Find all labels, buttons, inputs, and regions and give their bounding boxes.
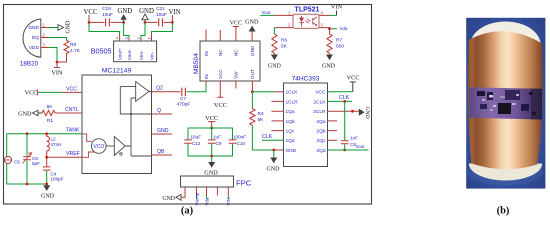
svg-text:10uF: 10uF <box>156 12 167 18</box>
svg-text:GND: GND <box>41 194 55 200</box>
wire pin4 to VIN <box>319 14 330 16</box>
photo copper cylinder <box>468 31 543 169</box>
ground (74HC393 GND pin) <box>273 150 275 158</box>
svg-text:VCO: VCO <box>93 144 104 150</box>
svg-text:C10: C10 <box>237 141 246 146</box>
wire Q2 to C7 <box>152 91 181 93</box>
svg-text:100nF: 100nF <box>233 134 246 139</box>
svg-text:2Qb: 2Qb <box>316 129 325 135</box>
wire pin1 <box>261 14 275 16</box>
svg-text:Vda: Vda <box>204 197 209 205</box>
FPC pin4 stub <box>216 187 218 196</box>
svg-text:1CLR: 1CLR <box>286 99 299 105</box>
wire DQ <box>41 37 49 39</box>
18B20 pin names <box>28 25 39 51</box>
svg-text:Vout: Vout <box>262 10 272 15</box>
wire C7 to MB504 IN <box>187 84 207 92</box>
svg-text:TLP521: TLP521 <box>295 7 320 14</box>
svg-text:GND: GND <box>250 45 255 56</box>
node TANK/C6 <box>26 132 29 135</box>
photo background <box>466 18 545 189</box>
svg-text:VIN: VIN <box>168 9 180 16</box>
svg-text:GND: GND <box>267 167 281 173</box>
svg-text:GND: GND <box>245 19 259 26</box>
svg-text:(b): (b) <box>497 206 510 217</box>
svg-text:VCC: VCC <box>230 20 243 27</box>
svg-text:VREF: VREF <box>66 151 80 157</box>
resistor R1 <box>42 110 55 115</box>
svg-text:VCC: VCC <box>214 102 227 109</box>
svg-text:Vout+: Vout+ <box>117 48 122 60</box>
photo top cap <box>470 21 540 45</box>
svg-text:VCC: VCC <box>218 69 223 79</box>
ground (2CLR, arrow right) <box>359 109 365 116</box>
svg-text:R4: R4 <box>258 111 264 117</box>
svg-text:1uF: 1uF <box>213 134 221 139</box>
svg-text:GND: GND <box>268 64 282 70</box>
svg-text:GND: GND <box>364 107 370 119</box>
svg-text:QB: QB <box>157 149 165 155</box>
sensor electrode C5 <box>6 134 8 157</box>
svg-text:IN: IN <box>204 74 209 79</box>
pin GND (MC12149) <box>152 133 173 135</box>
schematic frame <box>4 5 372 205</box>
svg-text:1Qa: 1Qa <box>286 109 295 115</box>
capacitor C8 <box>344 101 346 140</box>
B0505 pin names <box>117 48 154 60</box>
wire R4 to GND pin <box>252 125 273 150</box>
svg-text:VIN: VIN <box>226 198 231 205</box>
node decoupling bottom <box>210 155 213 158</box>
power VCC (74HC393) <box>328 91 353 93</box>
svg-text:DQ: DQ <box>32 35 39 41</box>
svg-text:L2: L2 <box>51 137 57 142</box>
optocoupler TLP521 <box>293 14 319 28</box>
svg-text:10uF: 10uF <box>102 12 113 18</box>
B0505 pin numbers <box>115 37 152 40</box>
svg-text:VDD: VDD <box>29 45 40 51</box>
svg-text:10uF: 10uF <box>191 134 202 139</box>
connector FPC <box>181 176 234 187</box>
svg-text:Vout: Vout <box>356 144 366 149</box>
photo bottom glow <box>467 158 543 186</box>
pin stubs MB504 top <box>206 30 220 42</box>
svg-text:5K: 5K <box>281 44 288 50</box>
svg-text:Vin+: Vin+ <box>139 50 144 60</box>
FPC pin3 Vda <box>206 187 208 196</box>
resistor R4 <box>250 109 255 126</box>
svg-text:2CLR: 2CLR <box>313 109 326 115</box>
svg-text:Q: Q <box>157 108 161 114</box>
wire GND rail to B0505 pin3 <box>124 22 129 38</box>
svg-text:VCC: VCC <box>25 90 38 97</box>
svg-text:1Qd: 1Qd <box>286 138 295 144</box>
capacitor C6 (variable) <box>26 134 28 156</box>
pin QB (MC12149) <box>152 154 173 156</box>
wire 2Qd Vout <box>328 149 369 151</box>
FPC pin5 VIN <box>227 187 229 196</box>
TLP521 pin numbers <box>288 11 324 28</box>
buffer triangle (small) <box>114 137 125 156</box>
svg-text:(a): (a) <box>181 206 194 217</box>
svg-text:5K: 5K <box>47 104 54 110</box>
wire tank bottom rail <box>7 183 47 185</box>
svg-text:Vtemp: Vtemp <box>194 192 199 205</box>
wire R1 to CNTL <box>55 112 82 114</box>
svg-text:Q2: Q2 <box>156 86 163 92</box>
ground (FPC, arrow left) <box>176 195 181 201</box>
wire decoupling loop <box>188 128 233 156</box>
svg-text:VCC: VCC <box>315 90 326 96</box>
resistor R8 <box>64 41 69 57</box>
FPC pin2 Vtemp <box>196 187 198 196</box>
svg-text:GND: GND <box>322 64 336 70</box>
power VCC (MB504 top) <box>233 27 239 42</box>
pin Q (MC12149) <box>152 113 173 115</box>
wire C19 to GND <box>111 21 124 23</box>
18B20 pin numbers <box>43 23 46 48</box>
capacitor C19 <box>106 18 110 26</box>
svg-text:VCC: VCC <box>84 9 98 16</box>
pin OUT wire <box>251 81 253 92</box>
svg-text:500: 500 <box>336 44 344 50</box>
svg-text:GND: GND <box>286 148 297 154</box>
output triangle (large) <box>136 82 149 102</box>
wire OUT to 74HC393 1CLK <box>252 91 274 93</box>
svg-text:R1: R1 <box>47 118 53 124</box>
svg-text:Vout-: Vout- <box>127 49 132 60</box>
svg-text:OUT: OUT <box>250 69 255 79</box>
svg-text:VCC: VCC <box>66 87 77 93</box>
net CLK wire (2CLK) <box>328 100 353 102</box>
net CLK wire (1Qd) <box>262 139 284 141</box>
capacitor C12 <box>184 140 192 143</box>
wire pin3 <box>319 28 330 29</box>
svg-text:TANK: TANK <box>66 127 80 133</box>
wire VREF <box>47 156 82 158</box>
svg-text:FPC: FPC <box>236 179 252 188</box>
svg-text:MB504: MB504 <box>193 53 200 74</box>
svg-text:C12: C12 <box>192 141 201 146</box>
wire VCC to C19 <box>89 21 105 23</box>
svg-text:VIN: VIN <box>331 4 343 11</box>
svg-text:2Qa: 2Qa <box>316 119 325 125</box>
svg-text:1nF: 1nF <box>350 136 358 141</box>
svg-text:470pF: 470pF <box>177 101 191 107</box>
wire 18B20 pin1 to ground <box>41 27 49 29</box>
svg-text:VIN: VIN <box>51 70 63 77</box>
svg-text:R6: R6 <box>281 38 287 44</box>
svg-text:C21: C21 <box>156 6 165 12</box>
wire R8 bottom to VDD node <box>57 56 67 62</box>
svg-text:MC12149: MC12149 <box>102 68 132 75</box>
wire OUT down to R4 <box>251 92 253 109</box>
capacitor C7 <box>182 88 186 96</box>
photo bottom cap <box>469 164 542 181</box>
svg-text:1CLK: 1CLK <box>286 90 299 96</box>
ground (tank) <box>43 185 50 191</box>
capacitor C10 <box>229 140 237 143</box>
oscillator MC12149 <box>82 75 152 174</box>
svg-text:4.7K: 4.7K <box>70 48 81 54</box>
wire TANK rail <box>7 133 82 135</box>
wire VIN rail to B0505 pin1 <box>152 22 173 34</box>
svg-text:GND: GND <box>66 21 72 34</box>
divider MB504 <box>200 41 260 81</box>
svg-text:C9: C9 <box>216 141 222 146</box>
svg-text:C7: C7 <box>180 96 186 102</box>
svg-text:2Qc: 2Qc <box>317 138 326 144</box>
svg-text:5K: 5K <box>258 117 265 123</box>
wire VCC rail to B0505 pin4 <box>89 22 120 34</box>
ground (R7) <box>329 53 331 54</box>
svg-text:GND: GND <box>162 196 175 202</box>
ground (R6) <box>273 53 275 54</box>
ground (18B20 pin1, arrow right) <box>58 25 64 31</box>
svg-text:2CLK: 2CLK <box>314 99 327 105</box>
svg-text:B0505: B0505 <box>91 46 112 55</box>
svg-text:74HC393: 74HC393 <box>292 75 320 82</box>
svg-text:IN: IN <box>204 51 209 56</box>
svg-text:NC: NC <box>218 49 223 56</box>
svg-text:VCC: VCC <box>347 74 360 81</box>
capacitor C9 <box>208 140 216 143</box>
svg-text:100pF: 100pF <box>51 177 64 182</box>
svg-text:Vda: Vda <box>340 26 348 31</box>
svg-text:GND: GND <box>18 110 32 117</box>
node VDD/VIN junction <box>56 61 59 64</box>
converter B0505 <box>114 41 157 62</box>
svg-text:1Qb: 1Qb <box>286 119 295 125</box>
VCO U-internal <box>92 139 107 154</box>
svg-text:C5: C5 <box>14 160 20 165</box>
capacitor C4 <box>46 157 48 166</box>
TLP521 phototransistor <box>313 17 317 26</box>
svg-text:18B20: 18B20 <box>20 61 39 68</box>
svg-text:VCC: VCC <box>205 115 218 122</box>
ground (decoupling) <box>211 156 213 162</box>
pin SW stub <box>235 81 237 89</box>
wire TANK into VCO <box>82 134 92 141</box>
resistor R6 <box>272 34 277 53</box>
FPC pin1 to ground <box>181 187 185 197</box>
svg-text:CLK: CLK <box>262 134 273 140</box>
internal wires MC12149 <box>106 87 151 156</box>
power VIN (18B20) <box>54 62 60 68</box>
counter 74HC393 <box>284 83 328 167</box>
svg-text:SW: SW <box>234 71 239 79</box>
TLP521 arrows <box>305 19 310 23</box>
svg-text:Vin-: Vin- <box>149 51 154 60</box>
unconnected stubs left <box>272 101 284 130</box>
svg-text:2Qd: 2Qd <box>316 148 325 154</box>
wire GND to C21 <box>145 21 158 23</box>
svg-text:NC: NC <box>234 49 239 56</box>
wire VDD <box>41 47 49 49</box>
sensor 18B20 body <box>23 19 41 57</box>
svg-text:C19: C19 <box>102 6 111 12</box>
74HC393 left pin names <box>286 90 299 154</box>
photo PCB components <box>477 90 536 115</box>
svg-text:5pF: 5pF <box>32 161 40 166</box>
wire GND rail to B0505 pin2 <box>141 22 145 38</box>
photo PCB right shadow <box>531 89 542 120</box>
TLP521 LED <box>301 16 303 18</box>
ground (MB504 top) <box>251 32 253 42</box>
inductor L2 <box>47 134 50 158</box>
node TANK/L2 <box>45 132 48 135</box>
resistor R7 <box>327 29 332 53</box>
svg-text:CNTL: CNTL <box>65 107 79 113</box>
wire 2CLR to ground <box>328 110 359 112</box>
svg-text:R8: R8 <box>70 42 76 48</box>
power VCC (MB504 bottom) <box>217 81 223 97</box>
wire pin2 to R6 <box>274 27 293 29</box>
svg-text:GND: GND <box>139 8 154 15</box>
unconnected stubs right <box>328 121 338 140</box>
node VREF/L2/C4 <box>45 156 48 159</box>
svg-text:R7: R7 <box>336 38 342 44</box>
photo PCB band <box>469 87 542 119</box>
MB504 pin names <box>204 45 255 79</box>
capacitor C21 <box>159 18 163 26</box>
svg-text:GND: GND <box>28 25 39 31</box>
74HC393 right pin names <box>313 90 326 154</box>
svg-text:47nH: 47nH <box>51 142 62 147</box>
svg-text:1Qc: 1Qc <box>286 129 295 135</box>
svg-text:GND: GND <box>157 128 169 134</box>
svg-text:GND: GND <box>117 8 132 15</box>
wire C21 to VIN <box>164 21 173 23</box>
wire VREF into VCO <box>82 152 95 157</box>
